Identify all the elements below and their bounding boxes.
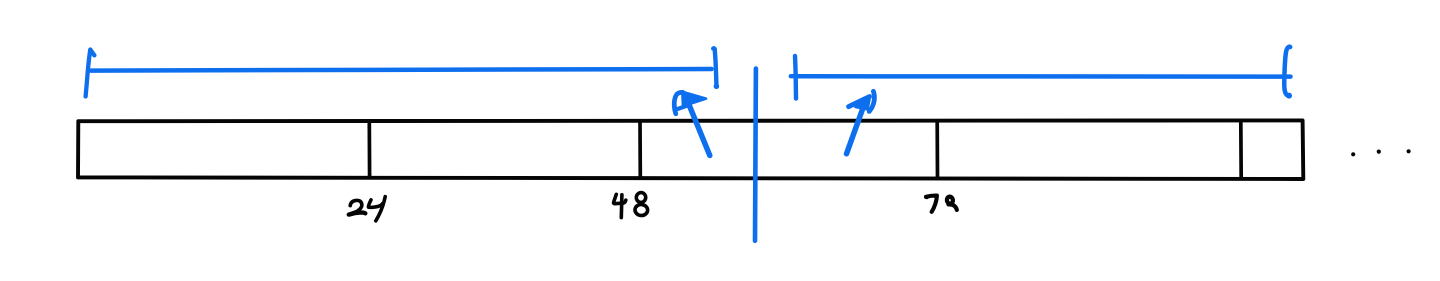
label 48 (614, 192, 649, 218)
bracket 1 right tick (713, 48, 716, 86)
arrow 1 shaft (688, 101, 710, 156)
divider right small cell (1239, 121, 1243, 179)
bracket 2 horizontal line (797, 74, 1291, 79)
arrow 1 head crossbar (675, 105, 689, 110)
bracket 2 left tick (791, 56, 797, 99)
ellipsis dot 1 (1351, 152, 1355, 156)
divider at 72 (935, 121, 939, 179)
arrow 2 head barb (849, 97, 870, 107)
arrow 2 head fill (856, 96, 871, 110)
arrow 2 shaft (847, 100, 867, 154)
divider at 48 (638, 121, 642, 178)
arrow 1 head flag fill (682, 92, 706, 106)
arrow 2 head hook (869, 91, 874, 111)
arrow 1 head left stroke (674, 92, 683, 113)
bracket 1 left tick (86, 50, 95, 97)
label 24 (349, 197, 385, 221)
bracket 1 horizontal line (91, 69, 712, 71)
divider at 24 (367, 121, 371, 178)
bracket 1 right tick end blob (714, 84, 720, 90)
label 72 (925, 195, 957, 212)
bracket 2 right tick (1284, 47, 1290, 96)
bar outline (78, 120, 1303, 179)
ellipsis dot 3 (1407, 149, 1411, 153)
ellipsis dot 2 (1377, 150, 1381, 154)
bracket 2 right tick end blob (1286, 93, 1292, 99)
blue vertical line (753, 69, 759, 241)
